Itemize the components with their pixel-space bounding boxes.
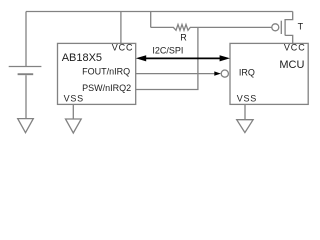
svg-text:IRQ: IRQ — [239, 67, 255, 77]
svg-text:I2C/SPI: I2C/SPI — [152, 46, 183, 56]
svg-text:VCC: VCC — [112, 43, 134, 53]
svg-text:T: T — [298, 21, 304, 31]
svg-text:VCC: VCC — [284, 43, 306, 53]
svg-text:MCU: MCU — [279, 59, 304, 71]
svg-text:VSS: VSS — [64, 94, 84, 104]
svg-text:R: R — [180, 33, 187, 43]
svg-text:PSW/nIRQ2: PSW/nIRQ2 — [82, 83, 131, 93]
svg-text:VSS: VSS — [237, 94, 257, 104]
svg-text:AB18X5: AB18X5 — [62, 52, 102, 64]
svg-text:FOUT/nIRQ: FOUT/nIRQ — [82, 66, 130, 76]
